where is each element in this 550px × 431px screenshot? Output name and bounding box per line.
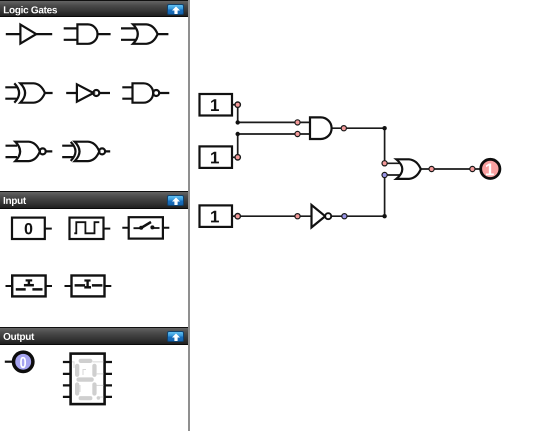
terminal AND output (1)	[341, 126, 346, 131]
palette NAND gate	[122, 83, 169, 102]
palette AND gate	[64, 24, 111, 43]
palette toggle switch input	[122, 217, 169, 238]
terminal NOT output (0)	[342, 214, 347, 219]
wire switch1 to AND input A	[238, 105, 310, 123]
Output header	[0, 327, 188, 345]
collapse button	[167, 195, 184, 206]
palette XNOR gate	[62, 142, 110, 161]
wire OR bottom stub	[385, 163, 404, 175]
light bulb DS1 lit (1)	[481, 159, 500, 178]
collapse button	[167, 4, 184, 15]
wire NOT output to OR input B	[331, 175, 385, 216]
palette NOR gate	[6, 142, 53, 161]
palette light bulb output	[5, 352, 33, 371]
toggle switch SW1 value 1	[200, 94, 236, 116]
wire switch2 to AND input B	[238, 134, 310, 157]
toggle switch SW2 value 1	[200, 146, 236, 168]
junction elbow node (NOT to OR)	[382, 214, 386, 218]
junction elbow node (switch1 wire)	[236, 120, 240, 124]
Input header	[0, 191, 188, 209]
palette push button NC input	[65, 276, 112, 297]
palette 7-segment display output	[63, 354, 112, 405]
terminal OR output (1)	[429, 166, 434, 171]
AND gate U1	[310, 117, 332, 139]
OR gate U3	[396, 159, 421, 179]
palette constant 0 input	[12, 218, 52, 239]
wire switch3 to NOT input	[234, 215, 312, 217]
terminal SW1 output (1)	[235, 102, 240, 107]
palette OR gate	[121, 24, 168, 43]
junction elbow node (AND to OR)	[382, 126, 386, 130]
palette push button NO input	[6, 276, 53, 297]
terminal bulb input (1)	[470, 166, 475, 171]
terminal OR input A (1)	[382, 161, 387, 166]
terminal AND input B (1)	[295, 131, 300, 136]
collapse button	[167, 331, 184, 342]
palette clock input	[70, 218, 111, 239]
terminal NOT input (1)	[295, 214, 300, 219]
terminal OR input B (0)	[382, 172, 387, 177]
terminal AND input A (1)	[295, 120, 300, 125]
toggle switch SW3 value 1	[200, 205, 236, 227]
palette buffer gate	[6, 25, 52, 44]
panel divider	[188, 0, 190, 431]
Logic Gates header	[0, 0, 188, 17]
junction elbow node (switch2 wire)	[236, 132, 240, 136]
terminal SW2 output (1)	[235, 155, 240, 160]
wire OR output to bulb	[421, 168, 481, 170]
terminal SW3 output (1)	[235, 214, 240, 219]
palette NOT gate	[66, 84, 110, 101]
wire AND output to OR input A	[332, 128, 385, 163]
palette XOR gate	[5, 83, 52, 102]
NOT gate U2	[312, 205, 332, 227]
